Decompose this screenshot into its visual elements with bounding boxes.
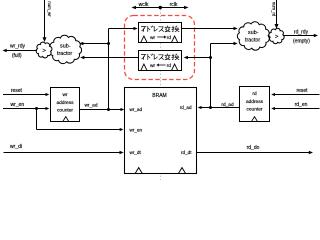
comparator cloud right [269,28,284,43]
svg-text:BRAM: BRAM [152,93,166,99]
node clock domain center junction [159,6,162,9]
comparator cloud left [36,42,52,58]
svg-text:address: address [56,100,74,106]
output wr_rdy (full) [3,44,38,59]
svg-text:reset: reset [296,88,308,94]
net wr_ad2: exchange output to right subtractor [182,27,238,30]
svg-text:>: > [42,47,46,54]
net rd_ad2: exchange output to left subtractor [80,56,138,59]
input wr_en with branch to BRAM write enable [3,102,124,131]
input reset (read side) [271,88,319,96]
svg-text:num_wr: num_wr [47,1,52,17]
block U2 address exchange wr from rd [139,51,182,71]
svg-text:num_rd: num_rd [271,2,276,17]
clock domain boundary dotted line [160,9,162,180]
svg-text:address: address [246,99,264,105]
svg-text:wr: wr [150,35,156,41]
svg-text:>: > [275,33,279,40]
svg-text:rd_rdy: rd_rdy [294,30,309,36]
svg-text:counter: counter [247,106,263,112]
input reset (write side) [3,88,49,96]
svg-text:wr_rdy: wr_rdy [10,44,26,50]
subtractor cloud left [50,35,82,63]
net rd_ad: counter output to BRAM and up to exchange [184,42,240,109]
svg-text:sub-: sub- [60,44,71,50]
svg-text:wr_en: wr_en [130,128,143,133]
input num_rd from top [271,0,278,29]
svg-text:wclk: wclk [139,2,149,8]
svg-text:wr_di: wr_di [10,144,22,150]
svg-text:wr: wr [62,92,67,98]
svg-text:tractor: tractor [57,51,72,57]
svg-text:tractor: tractor [245,38,260,44]
input wr_di data in [4,144,124,154]
svg-text:wr_ad: wr_ad [130,107,143,112]
svg-text:(full): (full) [12,53,22,59]
block rd address counter [240,87,270,122]
svg-text:wr_dt: wr_dt [130,150,142,155]
svg-text:rd_dt: rd_dt [181,150,192,155]
output rd_do data out [197,145,314,154]
svg-text:(empty): (empty) [293,38,310,44]
svg-text:rclk: rclk [170,2,178,8]
input num_wr from top [43,0,53,42]
svg-text:rd_do: rd_do [247,145,260,151]
svg-text:rd_ad: rd_ad [221,102,234,108]
svg-text:rd: rd [167,35,172,41]
wire clock domain double arrow [132,6,189,10]
svg-text:sub-: sub- [248,30,259,36]
svg-text:wr: wr [150,63,156,69]
svg-text:rd: rd [252,91,257,97]
block wr address counter [51,88,80,122]
subtractor cloud right [237,22,269,50]
net wr_ad: counter output to BRAM and up to exchange [79,27,138,111]
svg-text:wr_en: wr_en [10,102,24,108]
svg-text:rd_ad: rd_ad [180,105,192,110]
svg-text:rd: rd [167,63,172,69]
svg-text:reset: reset [11,88,23,94]
clock-domain-crossing region box (red dashed) [125,16,195,80]
svg-text:counter: counter [57,107,73,113]
svg-text:rd_en: rd_en [295,102,308,108]
block U1 address exchange wr to rd [139,23,182,43]
svg-text:wr_ad: wr_ad [84,103,97,109]
output rd_rdy (empty) [283,30,318,45]
block BRAM dual-port memory [125,88,197,174]
input rd_en [271,102,319,110]
